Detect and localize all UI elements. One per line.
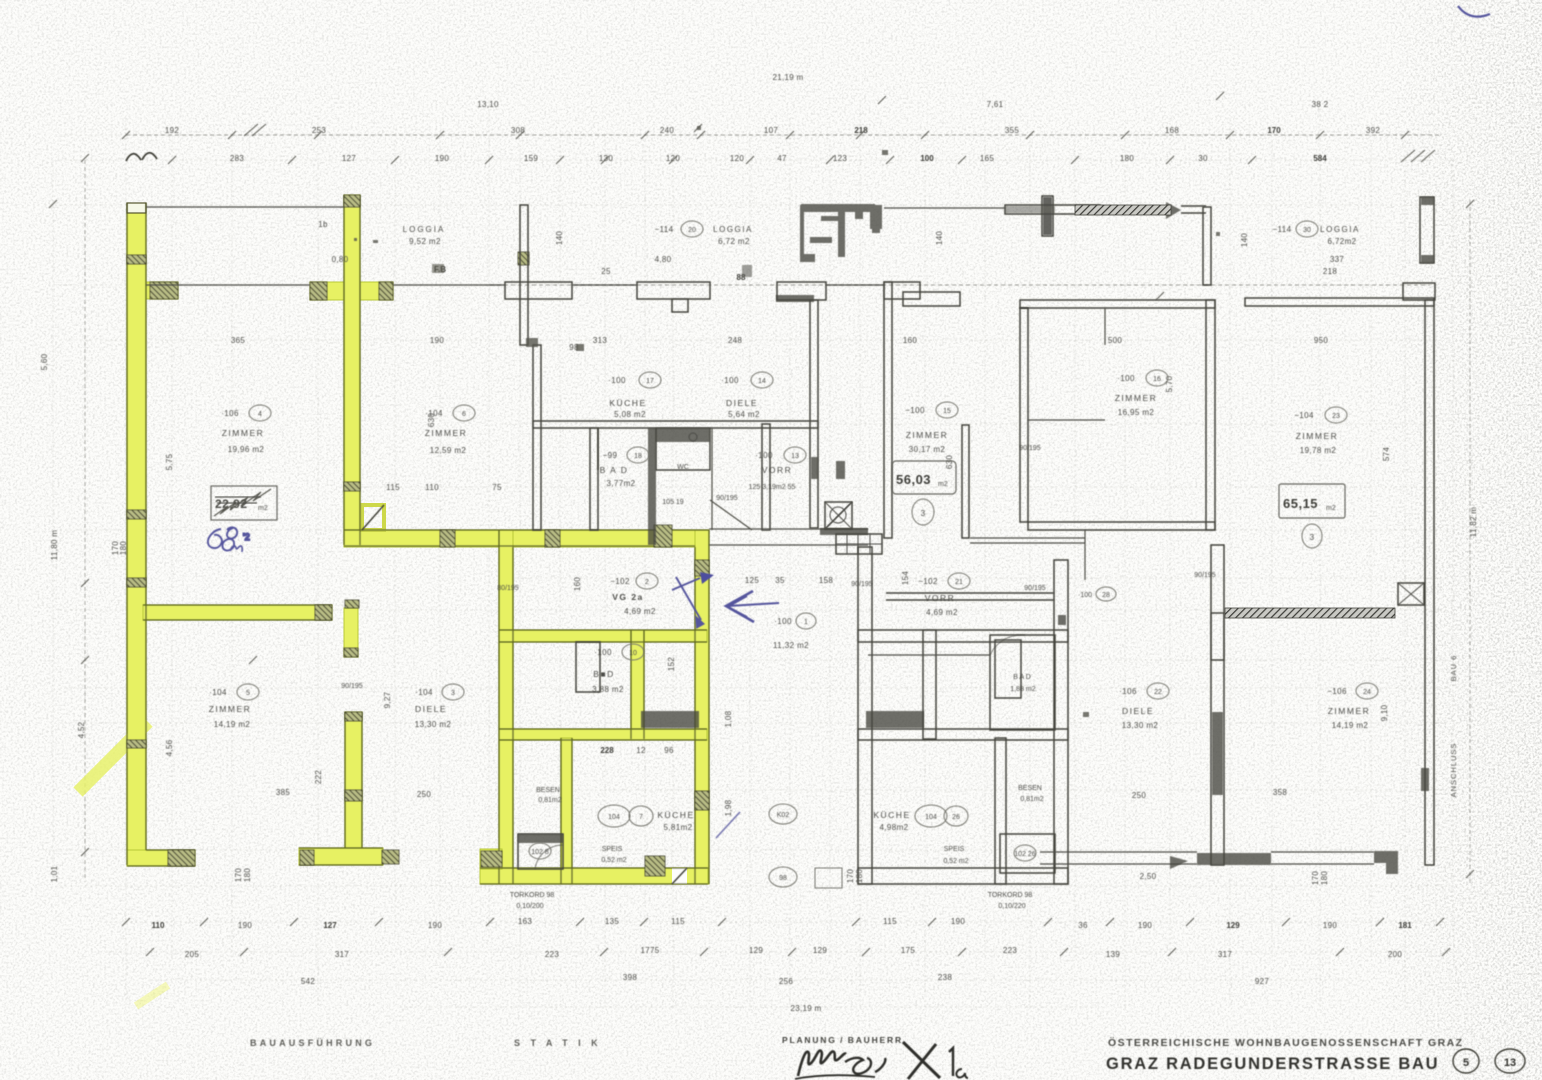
svg-text:m2: m2 [938,481,948,488]
svg-text:'2: '2 [243,532,250,542]
svg-text:KÜCHE: KÜCHE [873,810,910,820]
svg-text:129: 129 [813,946,827,955]
svg-text:13: 13 [791,453,799,460]
svg-text:90/195: 90/195 [1019,445,1041,452]
svg-text:75: 75 [492,483,502,492]
svg-text:4,52: 4,52 [77,721,86,738]
svg-text:·104: ·104 [209,688,227,697]
svg-text:22: 22 [1154,689,1162,696]
svg-text:18: 18 [634,453,642,460]
svg-text:115: 115 [671,917,685,926]
svg-text:17: 17 [646,378,654,385]
svg-text:574: 574 [1382,447,1391,461]
svg-text:238: 238 [938,973,952,982]
svg-text:VORR: VORR [925,593,956,603]
svg-text:222: 222 [314,770,323,784]
svg-text:−102: −102 [610,577,630,586]
svg-text:12,59 m2: 12,59 m2 [430,446,467,455]
svg-text:1,08: 1,08 [724,710,733,727]
svg-text:24: 24 [1363,689,1371,696]
svg-text:240: 240 [660,126,674,135]
svg-text:139: 139 [1106,950,1120,959]
svg-text:ZIMMER: ZIMMER [222,428,265,438]
svg-text:m2: m2 [258,505,268,512]
svg-text:190: 190 [238,921,252,930]
svg-text:165: 165 [980,154,994,163]
svg-text:135: 135 [605,917,619,926]
svg-text:DIELE: DIELE [726,398,758,408]
svg-text:·106: ·106 [1119,687,1137,696]
svg-text:175: 175 [901,946,915,955]
svg-text:100: 100 [920,154,934,163]
svg-text:125 3,19m2 55: 125 3,19m2 55 [749,484,796,491]
svg-text:5,08 m2: 5,08 m2 [614,410,646,419]
svg-text:B A D: B A D [1013,674,1031,681]
svg-text:90/195: 90/195 [1024,585,1046,592]
svg-text:317: 317 [1218,950,1232,959]
svg-text:·100: ·100 [721,376,739,385]
svg-text:160: 160 [573,577,582,591]
svg-text:2: 2 [645,579,649,586]
svg-text:30: 30 [1198,154,1208,163]
svg-text:120: 120 [666,154,680,163]
svg-text:1: 1 [804,619,808,626]
svg-text:110: 110 [152,921,165,930]
svg-text:180: 180 [119,541,128,555]
svg-text:3: 3 [921,509,926,518]
svg-text:5,75: 5,75 [165,453,174,470]
svg-text:4,98m2: 4,98m2 [879,823,908,832]
svg-text:500: 500 [1108,336,1122,345]
svg-text:3,77m2: 3,77m2 [606,479,635,488]
svg-text:80/195: 80/195 [497,585,519,592]
svg-text:105 19: 105 19 [662,499,684,506]
svg-text:BAU 6: BAU 6 [1449,655,1458,682]
svg-text:−100: −100 [905,406,925,415]
svg-text:950: 950 [1314,336,1328,345]
svg-text:m2: m2 [1326,505,1336,512]
svg-text:115: 115 [386,483,400,492]
svg-text:0,81m2: 0,81m2 [538,797,561,804]
svg-text:·104: ·104 [415,688,433,697]
svg-text:90/195: 90/195 [341,683,363,690]
svg-text:0,10/220: 0,10/220 [998,903,1025,910]
svg-text:15: 15 [943,408,951,415]
svg-text:170: 170 [846,869,855,883]
svg-text:ZIMMER: ZIMMER [1328,706,1371,716]
svg-text:14,19 m2: 14,19 m2 [1332,721,1369,730]
svg-text:140: 140 [1240,233,1249,247]
svg-text:96: 96 [664,746,674,755]
svg-text:107: 107 [764,126,778,135]
svg-text:·100: ·100 [774,617,792,626]
svg-text:GRAZ RADEGUNDERSTRASSE BAU: GRAZ RADEGUNDERSTRASSE BAU [1106,1055,1439,1073]
svg-text:584: 584 [1313,154,1327,163]
svg-text:KÜCHE: KÜCHE [609,398,646,408]
svg-text:20: 20 [688,227,696,234]
svg-text:192: 192 [165,126,179,135]
svg-text:927: 927 [1255,977,1269,986]
svg-text:317: 317 [335,950,349,959]
svg-text:358: 358 [1273,788,1287,797]
svg-text:4,56: 4,56 [165,739,174,756]
svg-text:21,19 m: 21,19 m [772,73,803,82]
svg-text:TORKORD 98: TORKORD 98 [988,892,1033,899]
svg-text:B A D: B A D [600,465,629,475]
svg-text:−102: −102 [918,577,938,586]
svg-text:·104: ·104 [425,409,443,418]
svg-text:ZIMMER: ZIMMER [1115,393,1158,403]
svg-text:129: 129 [1226,921,1240,930]
svg-text:355: 355 [1005,126,1019,135]
svg-text:170: 170 [234,868,243,882]
svg-text:190: 190 [1138,921,1152,930]
svg-text:12: 12 [636,746,646,755]
svg-text:38 2: 38 2 [1312,100,1329,109]
svg-text:STATIK: STATIK [514,1038,608,1048]
svg-text:23,19 m: 23,19 m [790,1004,821,1013]
svg-text:6: 6 [462,411,466,418]
svg-text:28: 28 [1102,592,1110,599]
svg-text:218: 218 [1323,267,1337,276]
svg-text:5: 5 [1463,1057,1469,1069]
svg-text:35: 35 [775,576,785,585]
svg-text:385: 385 [276,788,290,797]
svg-text:ÖSTERREICHISCHE WOHNBAUGENOSSE: ÖSTERREICHISCHE WOHNBAUGENOSSENSCHAFT GR… [1108,1036,1464,1049]
svg-text:159: 159 [524,154,538,163]
svg-text:248: 248 [728,336,742,345]
svg-text:BESEN: BESEN [1018,785,1042,792]
svg-text:337: 337 [1330,255,1344,264]
svg-text:125: 125 [745,576,759,585]
svg-text:123: 123 [833,154,847,163]
svg-text:190: 190 [435,154,449,163]
svg-text:180: 180 [1120,154,1134,163]
svg-text:0,52 m2: 0,52 m2 [943,858,968,865]
svg-text:19,96 m2: 19,96 m2 [228,445,265,454]
svg-text:·100: ·100 [755,451,773,460]
svg-text:ZIMMER: ZIMMER [1296,431,1339,441]
svg-text:4,69 m2: 4,69 m2 [926,608,958,617]
svg-text:181: 181 [1398,921,1412,930]
svg-text:13: 13 [1504,1057,1516,1069]
svg-text:SPEIS: SPEIS [602,846,623,853]
svg-text:B■D: B■D [593,669,614,679]
svg-text:65,15: 65,15 [1283,496,1318,511]
svg-text:154: 154 [901,571,910,585]
svg-text:−104: −104 [1294,411,1314,420]
svg-text:542: 542 [301,977,315,986]
svg-text:13,30 m2: 13,30 m2 [1122,721,1159,730]
svg-text:·100: ·100 [1117,374,1135,383]
svg-text:14,19 m2: 14,19 m2 [214,720,251,729]
svg-text:223: 223 [545,950,559,959]
svg-text:5,60: 5,60 [40,353,49,370]
svg-text:7: 7 [639,814,643,821]
svg-text:180: 180 [855,869,864,883]
svg-text:KÜCHE: KÜCHE [657,810,694,820]
svg-text:180: 180 [1320,871,1329,885]
svg-text:190: 190 [430,336,444,345]
svg-text:115: 115 [883,917,897,926]
svg-text:110: 110 [425,483,439,492]
svg-text:4,69 m2: 4,69 m2 [624,607,656,616]
svg-text:21: 21 [955,579,963,586]
svg-text:PLANUNG / BAUHERR: PLANUNG / BAUHERR [782,1035,903,1045]
svg-text:DIELE: DIELE [1122,706,1154,716]
svg-text:30: 30 [1303,227,1311,234]
svg-text:SPEIS: SPEIS [944,846,965,853]
svg-text:BAUAUSFÜHRUNG: BAUAUSFÜHRUNG [250,1038,375,1048]
svg-text:30,17 m2: 30,17 m2 [909,445,946,454]
svg-text:VORR: VORR [762,465,793,475]
svg-text:98: 98 [779,875,787,882]
svg-text:140: 140 [555,231,564,245]
svg-text:163: 163 [518,917,532,926]
svg-text:5,81m2: 5,81m2 [663,823,692,832]
svg-text:223: 223 [1003,946,1017,955]
svg-text:90/195: 90/195 [851,581,873,588]
svg-text:47: 47 [777,154,787,163]
svg-text:VG 2a: VG 2a [612,592,644,602]
svg-text:10: 10 [629,650,637,657]
svg-text:−114: −114 [1272,225,1291,234]
svg-text:5,70: 5,70 [1165,375,1174,392]
svg-text:120: 120 [730,154,744,163]
svg-text:7,61: 7,61 [987,100,1004,109]
svg-text:23: 23 [1332,413,1340,420]
svg-text:TORKORD 98: TORKORD 98 [510,892,555,899]
svg-text:ZIMMER: ZIMMER [906,430,949,440]
svg-text:90/195: 90/195 [1194,572,1216,579]
svg-text:4,80: 4,80 [655,255,672,264]
svg-text:0,52 m2: 0,52 m2 [601,857,626,864]
svg-text:−106: −106 [1327,687,1347,696]
svg-text:56,03: 56,03 [896,472,931,487]
svg-text:0,10/200: 0,10/200 [516,903,543,910]
svg-text:160: 160 [903,336,917,345]
svg-text:129: 129 [749,946,763,955]
svg-text:3: 3 [451,690,455,697]
svg-text:5,64 m2: 5,64 m2 [728,410,760,419]
svg-text:16,95 m2: 16,95 m2 [1118,408,1155,417]
svg-text:0,80: 0,80 [332,255,349,264]
svg-text:127: 127 [342,154,356,163]
svg-text:102 8: 102 8 [531,849,549,856]
svg-text:−114: −114 [654,225,673,234]
svg-text:LOGGIA: LOGGIA [713,225,753,234]
svg-text:1,98: 1,98 [724,799,733,816]
svg-text:250: 250 [417,790,431,799]
svg-text:170: 170 [1267,126,1281,135]
svg-text:5: 5 [246,690,250,697]
svg-text:392: 392 [1366,126,1380,135]
svg-text:308: 308 [511,126,525,135]
svg-text:250: 250 [1132,791,1146,800]
svg-text:170: 170 [1311,871,1320,885]
svg-text:6,72m2: 6,72m2 [1327,237,1356,246]
svg-text:11,82 m: 11,82 m [1469,507,1478,537]
svg-text:630: 630 [945,455,954,469]
svg-text:102 26: 102 26 [1014,851,1036,858]
svg-text:16: 16 [1153,376,1161,383]
svg-text:36: 36 [1078,921,1088,930]
svg-text:·100: ·100 [608,376,626,385]
svg-text:1,88 m2: 1,88 m2 [1010,686,1035,693]
svg-text:104: 104 [925,814,937,821]
svg-text:−99: −99 [603,451,618,460]
svg-text:168: 168 [1165,126,1179,135]
svg-text:DIELE: DIELE [415,704,447,714]
svg-text:190: 190 [1323,921,1337,930]
svg-text:190: 190 [428,921,442,930]
svg-text:14: 14 [758,378,766,385]
svg-text:26: 26 [952,814,960,821]
svg-text:LOGGIA: LOGGIA [1320,225,1360,234]
svg-text:256: 256 [779,977,793,986]
svg-text:11,32 m2: 11,32 m2 [773,641,809,650]
svg-text:1775: 1775 [641,946,660,955]
svg-text:25: 25 [601,267,611,276]
svg-text:ANSCHLUSS: ANSCHLUSS [1449,743,1458,798]
svg-text:9,27: 9,27 [383,691,392,708]
svg-text:180: 180 [243,868,252,882]
svg-text:·100: ·100 [1078,592,1092,599]
svg-text:ZIMMER: ZIMMER [209,704,252,714]
svg-text:11,80 m: 11,80 m [50,530,59,560]
svg-text:9,10: 9,10 [1380,704,1389,721]
svg-text:WC: WC [677,464,689,471]
svg-text:90/195: 90/195 [716,495,738,502]
svg-text:152: 152 [667,657,676,671]
svg-text:·100: ·100 [594,648,612,657]
svg-text:19,78 m2: 19,78 m2 [1300,446,1337,455]
svg-text:205: 205 [185,950,199,959]
svg-text:K02: K02 [777,812,790,819]
svg-text:0,81m2: 0,81m2 [1020,796,1043,803]
svg-text:398: 398 [623,973,637,982]
svg-text:2,50: 2,50 [1140,872,1157,881]
svg-text:4: 4 [258,411,262,418]
svg-text:190: 190 [951,917,965,926]
svg-text:·106: ·106 [221,409,239,418]
svg-text:228: 228 [600,746,614,755]
svg-text:200: 200 [1388,950,1402,959]
svg-text:13,30 m2: 13,30 m2 [415,720,452,729]
svg-text:104: 104 [608,814,620,821]
svg-text:1b: 1b [318,220,328,229]
svg-text:3: 3 [1310,533,1315,542]
svg-text:283: 283 [230,154,244,163]
svg-text:1,01: 1,01 [50,865,59,882]
svg-text:140: 140 [935,231,944,245]
svg-text:9,52 m2: 9,52 m2 [409,237,441,246]
svg-text:158: 158 [819,576,833,585]
svg-text:127: 127 [323,921,337,930]
svg-text:13,10: 13,10 [477,100,499,109]
svg-text:LOGGIA: LOGGIA [403,225,446,234]
svg-text:ZIMMER: ZIMMER [425,428,468,438]
svg-text:365: 365 [231,336,245,345]
svg-text:6,72 m2: 6,72 m2 [718,237,750,246]
svg-text:BESEN: BESEN [536,787,560,794]
svg-text:313: 313 [593,336,607,345]
